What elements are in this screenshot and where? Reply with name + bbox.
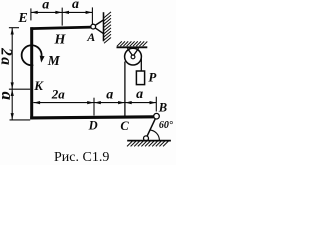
bottom dimension line bbox=[33, 102, 156, 104]
moment M arrowhead bbox=[40, 56, 45, 63]
svg-text:C: C bbox=[120, 119, 129, 133]
bottom dim arrow right into B tick bbox=[150, 101, 157, 104]
svg-text:2a: 2a bbox=[0, 47, 15, 67]
ground hatching bbox=[127, 141, 169, 146]
svg-text:a: a bbox=[136, 87, 143, 102]
top dim arrow left at E bbox=[31, 11, 38, 14]
pulley hub bbox=[131, 55, 135, 59]
svg-text:a: a bbox=[72, 0, 79, 12]
bottom dim arrow right into C cable bbox=[118, 101, 125, 104]
pin circle at A bbox=[91, 24, 96, 29]
svg-text:A: A bbox=[86, 30, 95, 44]
ceiling hatching bbox=[117, 41, 147, 46]
top dim arrow right into H bbox=[55, 11, 62, 14]
svg-text:D: D bbox=[88, 118, 98, 132]
wall hatching at A bbox=[104, 12, 111, 43]
left dimension line bbox=[11, 28, 13, 120]
left dim tick at K level bbox=[9, 88, 30, 90]
wall line at A bbox=[103, 12, 105, 41]
bottom dim arrow left into beam bbox=[34, 101, 41, 104]
left dim tick bottom bbox=[10, 119, 31, 121]
top dim arrow right into A bbox=[86, 11, 93, 14]
bottom dim extension at B bbox=[155, 97, 157, 112]
pin circle at B bbox=[154, 113, 160, 119]
ceiling line (pulley mount) bbox=[117, 46, 148, 48]
svg-text:2a: 2a bbox=[51, 87, 66, 102]
bottom dim arrow left into C cable bbox=[125, 101, 132, 104]
svg-text:Рис. С1.9: Рис. С1.9 bbox=[54, 150, 109, 165]
left dim tick top (E level) bbox=[9, 27, 19, 29]
weight P box bbox=[136, 71, 144, 85]
svg-text:M: M bbox=[47, 53, 61, 68]
moment M arc (clockwise) bbox=[22, 45, 42, 65]
top dim extension at A bbox=[91, 7, 93, 24]
pulley bracket right link bbox=[133, 48, 139, 56]
beam EA (top horizontal member) bbox=[30, 27, 91, 29]
svg-text:K: K bbox=[33, 78, 44, 93]
svg-text:60°: 60° bbox=[159, 120, 173, 131]
pulley wheel bbox=[125, 48, 142, 65]
60 degree arc bbox=[150, 130, 160, 140]
svg-text:a: a bbox=[106, 88, 113, 103]
svg-text:H: H bbox=[54, 33, 67, 48]
top dim tick at H bbox=[61, 8, 63, 26]
left dim arrow up (top) bbox=[11, 28, 14, 35]
pulley bracket left link bbox=[127, 48, 133, 56]
ground pin circle bbox=[144, 136, 149, 141]
top dim tick at E bbox=[30, 8, 32, 20]
ground line bbox=[127, 140, 171, 142]
beam corner-B (bottom horizontal member) bbox=[30, 117, 154, 118]
pin link lower at A bbox=[93, 27, 103, 34]
svg-text:a: a bbox=[42, 0, 49, 13]
left dim arrow down into K tick bbox=[11, 82, 14, 89]
cable right (to weight P) bbox=[140, 58, 142, 72]
svg-text:P: P bbox=[148, 69, 157, 84]
cable left (to C) bbox=[124, 62, 126, 117]
support rod at B (60 deg) bbox=[146, 116, 157, 138]
bottom dim arrow right into D bbox=[87, 101, 94, 104]
top dimension line bbox=[31, 11, 93, 13]
svg-text:B: B bbox=[158, 100, 167, 114]
beam E-corner (left vertical member) bbox=[30, 27, 33, 119]
top dim arrow left into H bbox=[63, 11, 70, 14]
svg-text:a: a bbox=[0, 92, 17, 101]
left dim arrow down (bottom) bbox=[11, 113, 14, 120]
bottom dim tick at D bbox=[93, 98, 95, 116]
left dim arrow up from below K tick bbox=[11, 90, 14, 97]
pin link upper at A bbox=[93, 20, 103, 27]
bottom dim arrow left into D bbox=[94, 101, 101, 104]
svg-text:E: E bbox=[17, 11, 27, 26]
